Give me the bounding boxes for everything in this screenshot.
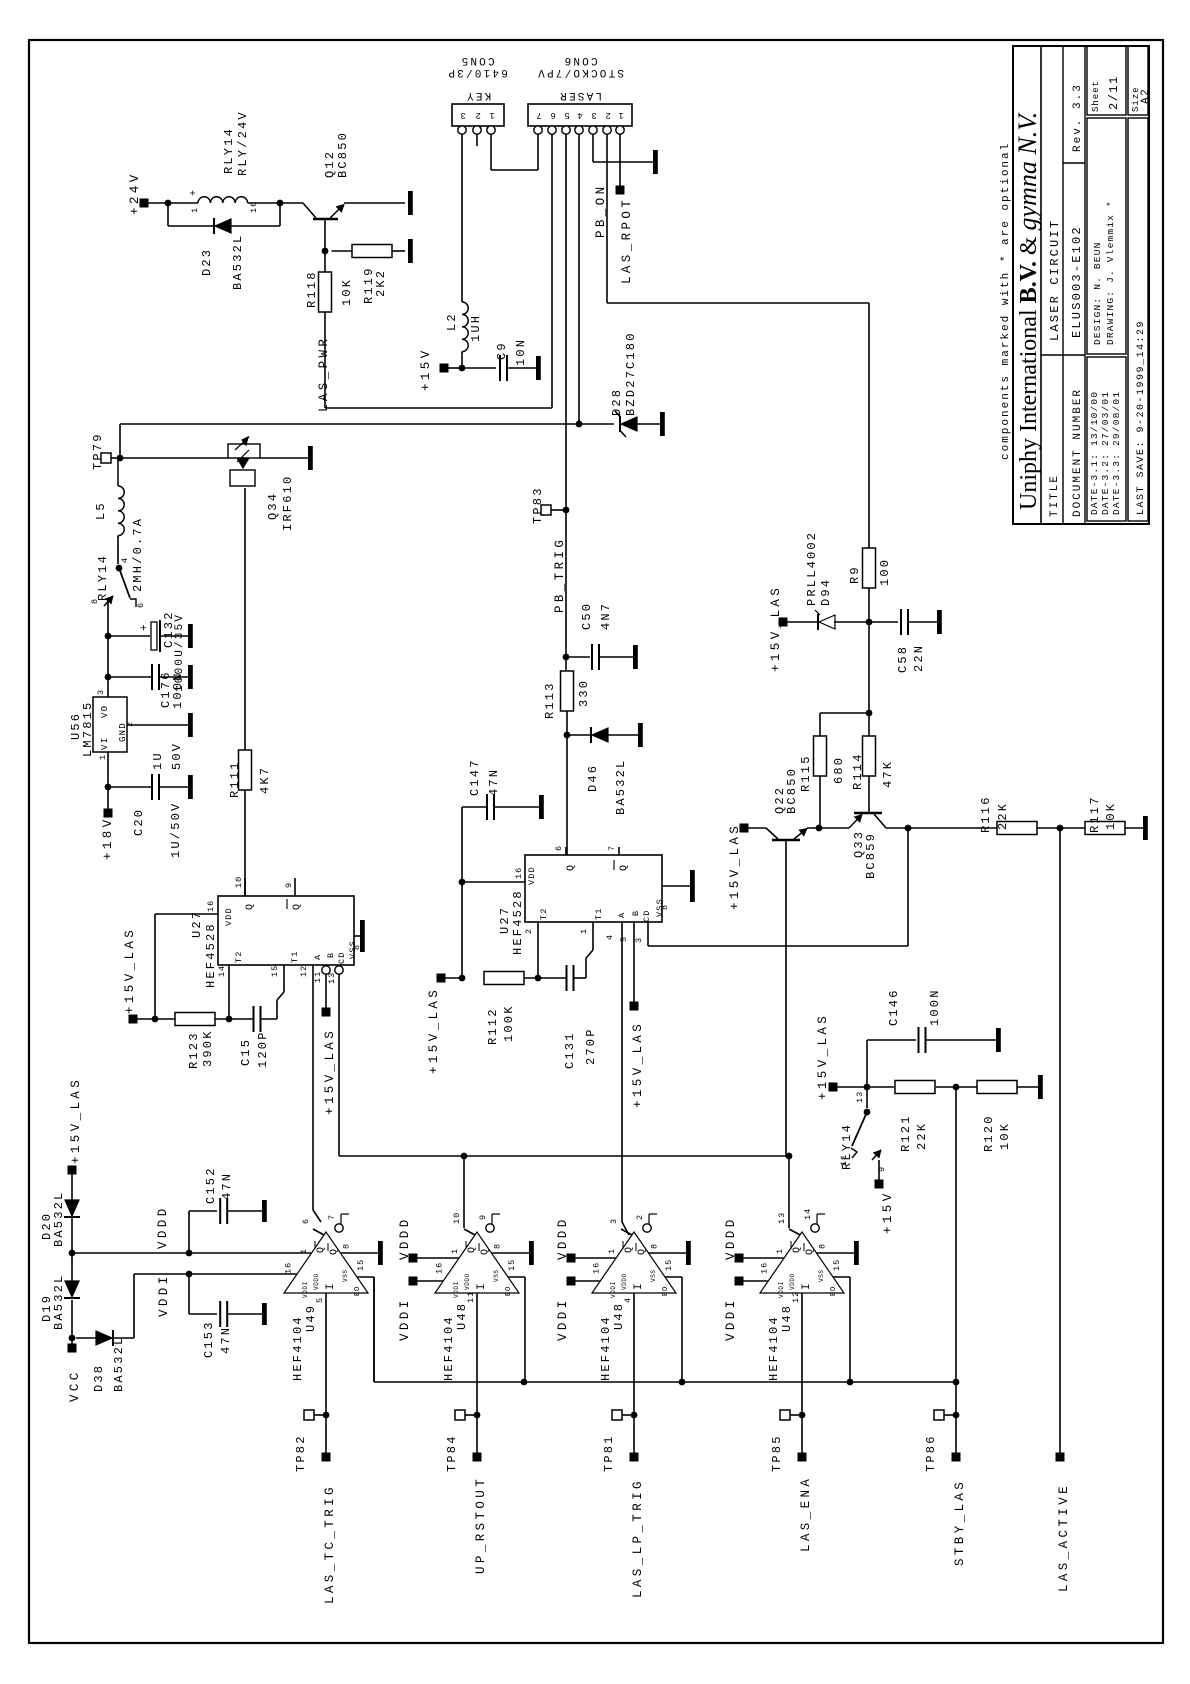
svg-text:U49: U49 — [304, 1304, 318, 1332]
svg-text:VDD: VDD — [224, 907, 234, 926]
buffer U48 HEF4104 (LAS_LP_TRIG) — [592, 1232, 676, 1293]
node junction — [953, 1084, 960, 1091]
svg-text:DATE-3.3: 29/08/01: DATE-3.3: 29/08/01 — [1111, 391, 1122, 515]
svg-text:47N: 47N — [487, 768, 501, 796]
capacitor C176 100N — [108, 676, 152, 678]
svg-text:PRLL4002: PRLL4002 — [805, 531, 819, 606]
capacitor C147 47N — [462, 806, 487, 808]
wire EO — [665, 1276, 682, 1278]
VDDI terminal — [409, 1277, 418, 1286]
svg-text:3: 3 — [96, 689, 106, 695]
svg-text:VSS: VSS — [493, 1269, 500, 1282]
ground — [937, 610, 942, 634]
wire — [344, 202, 405, 204]
svg-text:Q: Q — [316, 1246, 327, 1253]
svg-text:1: 1 — [299, 1248, 309, 1254]
svg-text:R9: R9 — [848, 565, 862, 584]
node junction — [165, 200, 172, 207]
svg-text:VDDO: VDDO — [313, 1273, 320, 1290]
svg-text:C152: C152 — [204, 1166, 218, 1204]
wire — [461, 352, 463, 368]
wire VDDI — [743, 1280, 768, 1282]
svg-text:BA532L: BA532L — [231, 234, 245, 290]
svg-text:TP86: TP86 — [924, 1434, 938, 1472]
svg-text:R115: R115 — [799, 754, 813, 792]
svg-text:9: 9 — [478, 1214, 488, 1220]
svg-text:VDDD: VDDD — [398, 1216, 412, 1260]
svg-text:1: 1 — [607, 1248, 617, 1254]
svg-text:HEF4104: HEF4104 — [291, 1315, 305, 1381]
svg-text:+: + — [189, 189, 200, 196]
svg-text:TP82: TP82 — [294, 1434, 308, 1472]
svg-text:VCC: VCC — [68, 1369, 82, 1402]
wire VSS to ground — [816, 1252, 854, 1254]
inductor L2 1UH — [462, 302, 468, 352]
svg-text:TP85: TP85 — [770, 1434, 784, 1472]
svg-text:VDDD: VDDD — [724, 1216, 738, 1260]
svg-text:16: 16 — [591, 1262, 601, 1274]
svg-text:13: 13 — [855, 1091, 865, 1103]
ground — [854, 1241, 859, 1265]
svg-text:IRF610: IRF610 — [281, 475, 295, 531]
capacitor C131 270P — [566, 965, 568, 991]
svg-text:VDDI: VDDI — [724, 1297, 738, 1341]
svg-text:HEF4104: HEF4104 — [767, 1315, 781, 1381]
wire input signal — [476, 1293, 478, 1453]
svg-text:15: 15 — [507, 1259, 517, 1271]
svg-text:6: 6 — [548, 110, 556, 120]
svg-text:TP81: TP81 — [602, 1434, 616, 1472]
svg-text:2: 2 — [473, 110, 481, 120]
wire EO — [833, 1276, 850, 1278]
svg-text:390K: 390K — [201, 1029, 215, 1067]
svg-text:I: I — [325, 1282, 337, 1290]
wire — [248, 202, 303, 204]
svg-text:C50: C50 — [580, 602, 594, 630]
wire A2 pin4 from gate U48 — [621, 922, 623, 1222]
inductor L5 2MH/0.7A — [118, 486, 124, 536]
svg-text:VDDD: VDDD — [156, 1205, 170, 1249]
svg-text:KEY: KEY — [465, 89, 491, 101]
svg-text:16: 16 — [514, 867, 524, 879]
svg-text:8: 8 — [341, 1243, 351, 1249]
wire input signal — [633, 1293, 635, 1453]
ground — [308, 446, 313, 470]
svg-text:DOCUMENT NUMBER: DOCUMENT NUMBER — [1072, 388, 1084, 517]
wire — [71, 1300, 73, 1344]
svg-text:Q: Q — [245, 903, 256, 910]
svg-text:A2: A2 — [1140, 88, 1152, 104]
wire CON6 pin3 to ground — [592, 134, 594, 162]
VCC supply terminal — [68, 1344, 77, 1353]
node junction — [564, 732, 571, 739]
wire CD2 pin3 — [647, 922, 649, 946]
svg-text:15: 15 — [356, 1259, 366, 1271]
wire — [868, 588, 870, 622]
wire — [834, 621, 869, 623]
VDDD rail wire — [72, 1252, 311, 1254]
svg-text:22K: 22K — [915, 1122, 929, 1150]
svg-text:2K2: 2K2 — [374, 269, 388, 297]
VDDI terminal — [567, 1277, 576, 1286]
svg-text:C153: C153 — [202, 1320, 216, 1358]
svg-text:CD: CD — [337, 951, 347, 964]
svg-text:A: A — [313, 954, 323, 960]
svg-text:VSS: VSS — [342, 1269, 349, 1282]
svg-text:6: 6 — [301, 1218, 311, 1224]
svg-text:EO: EO — [354, 1286, 362, 1296]
capacitor C58 22N — [869, 621, 898, 623]
svg-text:VDDI: VDDI — [778, 1281, 785, 1298]
svg-text:4N7: 4N7 — [599, 602, 613, 630]
svg-text:270P: 270P — [584, 1027, 598, 1065]
svg-text:Q34: Q34 — [266, 492, 280, 520]
transistor Q12 BC850 — [313, 218, 338, 221]
svg-text:6: 6 — [554, 845, 564, 851]
wire — [392, 250, 405, 252]
svg-text:1U: 1U — [151, 751, 165, 770]
test point TP83 — [541, 505, 551, 515]
svg-text:47N: 47N — [220, 1172, 234, 1200]
svg-text:+15V_LAS: +15V_LAS — [631, 1021, 645, 1108]
resistor R111 4K7 — [239, 750, 252, 790]
svg-text:VDDI: VDDI — [453, 1281, 460, 1298]
svg-text:1: 1 — [98, 754, 108, 760]
voltage regulator U56 LM7815 — [93, 697, 127, 752]
wire PB_TRIG — [565, 510, 567, 650]
node junction — [69, 1335, 76, 1342]
ground — [660, 412, 665, 436]
node junction — [461, 1153, 468, 1160]
svg-text:8: 8 — [817, 1243, 827, 1249]
svg-text:VDDO: VDDO — [621, 1273, 628, 1290]
svg-text:T2: T2 — [234, 950, 244, 963]
svg-text:22K: 22K — [996, 802, 1010, 830]
svg-text:VDDO: VDDO — [789, 1273, 796, 1290]
wire — [867, 1086, 894, 1088]
resistor R9 100 — [863, 548, 876, 588]
svg-text:VI: VI — [100, 737, 110, 750]
LAS_RPOT terminal — [616, 186, 625, 195]
svg-text:680: 680 — [832, 756, 846, 784]
svg-text:R117: R117 — [1088, 795, 1102, 833]
ground — [188, 775, 193, 799]
mosfet Q34 IRF610 — [228, 444, 260, 458]
svg-text:LASER CIRCUIT: LASER CIRCUIT — [1048, 219, 1062, 341]
node junction — [905, 825, 912, 832]
signal terminal STBY_LAS — [952, 1453, 961, 1462]
wire — [868, 622, 870, 713]
wire VSS to ground — [648, 1252, 686, 1254]
title block inner box dates — [1087, 357, 1126, 521]
svg-text:R112: R112 — [486, 1007, 500, 1045]
node junction — [1057, 825, 1064, 832]
svg-text:3: 3 — [458, 110, 466, 120]
node junction — [563, 654, 570, 661]
transistor Q33 BC859 — [854, 812, 882, 815]
svg-text:ELUS003-E102: ELUS003-E102 — [1070, 225, 1084, 338]
wire — [1037, 827, 1085, 829]
svg-text:RLY14: RLY14 — [96, 554, 110, 601]
svg-text:VDDD: VDDD — [556, 1216, 570, 1260]
+15V_LAS supply terminal — [630, 1002, 639, 1011]
svg-text:Q: Q — [805, 1248, 816, 1255]
title block inner box lastsave — [1128, 118, 1148, 521]
ground — [188, 624, 193, 648]
node junction — [816, 825, 823, 832]
ground — [536, 356, 541, 380]
test point TP84 — [455, 1410, 465, 1420]
resistor R115 680 — [814, 736, 827, 776]
svg-text:LAS_LP_TRIG: LAS_LP_TRIG — [631, 1478, 645, 1598]
node junction — [864, 1084, 871, 1091]
svg-text:12: 12 — [791, 1291, 801, 1303]
title block inner box size — [1128, 46, 1148, 115]
wire CD pin13 — [335, 966, 343, 974]
svg-text:RLY/24V: RLY/24V — [236, 110, 250, 176]
wire input signal — [801, 1293, 803, 1453]
wire — [119, 424, 121, 458]
transistor Q22 BC850 — [772, 839, 800, 842]
resistor R123 390K — [155, 1018, 175, 1020]
test point TP82 — [304, 1410, 314, 1420]
svg-text:13: 13 — [777, 1212, 787, 1224]
ground — [539, 795, 544, 819]
svg-text:HEF4104: HEF4104 — [442, 1315, 456, 1381]
svg-text:12: 12 — [299, 965, 309, 977]
wire VSS pin8 to ground — [354, 935, 360, 937]
+15V_LAS supply terminal — [322, 1008, 331, 1017]
capacitor C15 120P — [253, 1006, 255, 1032]
svg-text:R111: R111 — [228, 760, 242, 798]
diode D19 BA532L — [65, 1281, 79, 1297]
wire — [524, 977, 566, 979]
svg-text:BA532L: BA532L — [112, 1336, 126, 1392]
diode D38 BA532L — [76, 1337, 96, 1339]
svg-text:TP83: TP83 — [531, 486, 545, 524]
svg-text:4K7: 4K7 — [258, 766, 272, 794]
svg-text:R121: R121 — [899, 1114, 913, 1152]
+15V_LAS supply terminal — [129, 1015, 138, 1024]
wire gate4 Q / Q22 base shared net — [788, 1156, 790, 1228]
svg-text:VDDO: VDDO — [464, 1273, 471, 1290]
wire — [807, 827, 849, 829]
svg-text:50V: 50V — [170, 742, 184, 770]
svg-text:C131: C131 — [563, 1031, 577, 1069]
inverted output — [335, 1224, 343, 1232]
svg-text:BA532L: BA532L — [52, 1191, 66, 1247]
node junction — [786, 1153, 793, 1160]
node junction — [576, 421, 583, 428]
wire VSS to ground — [491, 1252, 529, 1254]
wire VSS to ground — [340, 1252, 378, 1254]
svg-text:Q: Q — [292, 903, 303, 910]
svg-text:15: 15 — [832, 1259, 842, 1271]
node junction — [116, 565, 123, 572]
svg-text:LASER: LASER — [558, 89, 602, 101]
svg-text:R123: R123 — [187, 1031, 201, 1069]
buffer U48 HEF4104 (LAS_ENA) — [760, 1232, 844, 1293]
diode D20 BA532L — [71, 1174, 73, 1200]
svg-text:1: 1 — [487, 110, 495, 120]
signal terminal LAS_ACTIVE — [1056, 1453, 1065, 1462]
diode D94 PRLL4002 — [787, 621, 818, 623]
+15V_LAS supply terminal — [829, 1083, 838, 1092]
svg-text:100N: 100N — [928, 988, 942, 1026]
svg-text:B: B — [326, 952, 336, 958]
svg-text:Uniphy International B.V. &: Uniphy International B.V. & gymna N.V. — [1013, 112, 1042, 510]
svg-text:TP84: TP84 — [445, 1434, 459, 1472]
node junction — [105, 784, 112, 791]
monostable U27 HEF4528 (second half) — [525, 855, 662, 922]
ground — [690, 870, 695, 902]
ground — [378, 1241, 383, 1265]
svg-text:3: 3 — [589, 110, 597, 120]
wire R115 to node — [819, 776, 821, 828]
wire Q output — [464, 1229, 475, 1235]
svg-text:6: 6 — [136, 602, 146, 608]
resistor R116 22K — [997, 822, 1037, 835]
svg-text:R116: R116 — [979, 795, 993, 833]
svg-text:VDD: VDD — [527, 866, 537, 885]
wire — [565, 650, 567, 670]
wire VDDI — [417, 1280, 443, 1282]
svg-text:5: 5 — [619, 936, 629, 942]
node junction — [535, 975, 542, 982]
svg-text:T1: T1 — [594, 907, 604, 920]
wire CON6 pin1 LAS_RPOT — [619, 134, 621, 186]
svg-text:TP79: TP79 — [91, 432, 105, 470]
wire Q34 gate down — [244, 488, 246, 751]
svg-text:R120: R120 — [982, 1114, 996, 1152]
svg-text:15: 15 — [664, 1259, 674, 1271]
wire T1-1 jog — [574, 977, 587, 979]
node junction — [152, 1016, 159, 1023]
svg-text:8: 8 — [492, 1243, 502, 1249]
wire B pin11 to +15V_LAS — [322, 966, 330, 974]
svg-text:I: I — [476, 1282, 488, 1290]
svg-text:LAS_RPOT: LAS_RPOT — [620, 197, 634, 284]
svg-text:7: 7 — [327, 1214, 337, 1220]
svg-text:8: 8 — [90, 598, 100, 604]
svg-text:DESIGN: N. BEUN: DESIGN: N. BEUN — [1092, 241, 1103, 345]
svg-text:+15V_LAS: +15V_LAS — [769, 585, 783, 672]
svg-text:11: 11 — [839, 1154, 849, 1166]
ground — [408, 191, 413, 215]
wire — [107, 752, 109, 809]
svg-text:120P: 120P — [256, 1030, 270, 1068]
ground — [188, 665, 193, 689]
svg-text:3: 3 — [634, 937, 644, 943]
svg-text:U48: U48 — [612, 1302, 626, 1330]
svg-text:+15V_LAS: +15V_LAS — [728, 823, 742, 910]
svg-text:1UH: 1UH — [469, 314, 483, 342]
wire CON5 pin1 to CON6 pin7 — [490, 134, 492, 170]
node junction — [186, 1271, 193, 1278]
wire T1 pin15 jog — [261, 1018, 278, 1020]
+18V supply terminal — [104, 809, 113, 818]
resistor R113 330 — [561, 671, 574, 711]
node junction — [866, 619, 873, 626]
node junction — [226, 1016, 233, 1023]
buffer U48 HEF4104 (UP_RSTOUT) — [435, 1232, 519, 1293]
test point TP86 — [934, 1410, 944, 1420]
svg-text:HEF4104: HEF4104 — [599, 1315, 613, 1381]
svg-text:11: 11 — [466, 1291, 476, 1303]
svg-text:+15V_LAS: +15V_LAS — [427, 987, 441, 1074]
svg-text:8: 8 — [660, 904, 670, 910]
signal terminal LAS_ENA — [798, 1453, 807, 1462]
wire +15V_LAS rail up — [461, 807, 463, 978]
relay switch RLY14 — [119, 568, 130, 598]
wire CON6 pin2 PB_ON — [606, 134, 608, 303]
wire — [886, 827, 997, 829]
node junction — [953, 1412, 960, 1419]
svg-text:16: 16 — [434, 1262, 444, 1274]
svg-text:10K: 10K — [998, 1122, 1012, 1150]
svg-text:330: 330 — [577, 679, 591, 707]
wire CON6 pin5 PB_TRIG — [565, 134, 567, 510]
wire CON5 pin2 stub — [476, 134, 478, 146]
test point TP81 — [612, 1410, 622, 1420]
wire — [566, 711, 568, 855]
svg-text:15: 15 — [270, 965, 280, 977]
svg-text:PB_TRIG: PB_TRIG — [553, 537, 567, 613]
svg-text:4: 4 — [605, 934, 615, 940]
svg-text:CD: CD — [642, 909, 652, 922]
+15V supply terminal — [440, 364, 449, 373]
capacitor C153 47N — [188, 1274, 190, 1314]
wire C146 branch — [866, 1040, 868, 1087]
node junction — [69, 1250, 76, 1257]
resistor R118 10K — [319, 272, 332, 312]
svg-text:BZD27C180: BZD27C180 — [624, 331, 638, 416]
node junction — [323, 1412, 330, 1419]
svg-text:Q: Q — [637, 1248, 648, 1255]
svg-text:R114: R114 — [851, 752, 865, 790]
+24V supply terminal — [140, 199, 149, 208]
svg-text:VDDI: VDDI — [302, 1281, 309, 1298]
svg-text:HEF4528: HEF4528 — [204, 922, 218, 988]
resistor R117 10K — [1085, 822, 1125, 835]
ground — [686, 1241, 691, 1265]
svg-text:D23: D23 — [200, 248, 214, 276]
svg-text:C15: C15 — [239, 1038, 253, 1066]
svg-text:T1: T1 — [290, 950, 300, 963]
svg-text:Rev. 3.3: Rev. 3.3 — [1072, 83, 1084, 152]
svg-text:+15V_LAS: +15V_LAS — [123, 927, 137, 1014]
node junction — [953, 1379, 960, 1386]
svg-text:LAS_ENA: LAS_ENA — [799, 1476, 813, 1552]
node junction — [679, 1379, 686, 1386]
node junction — [105, 633, 112, 640]
svg-text:HEF4528: HEF4528 — [511, 889, 525, 955]
svg-text:VSS: VSS — [818, 1269, 825, 1282]
svg-text:10: 10 — [234, 876, 244, 888]
svg-text:TITLE: TITLE — [1049, 474, 1061, 517]
svg-text:VDDI: VDDI — [398, 1297, 412, 1341]
svg-text:1: 1 — [450, 1248, 460, 1254]
resistor R120 10K — [977, 1081, 1017, 1094]
inverted output — [486, 1224, 494, 1232]
node junction — [459, 879, 466, 886]
svg-text:UP_RSTOUT: UP_RSTOUT — [474, 1476, 488, 1574]
svg-text:Q: Q — [792, 1246, 803, 1253]
svg-text:U48: U48 — [780, 1304, 794, 1332]
svg-text:1: 1 — [616, 110, 624, 120]
polarized capacitor C132 1000U/35V — [108, 635, 150, 637]
svg-text:LAS_TC_TRIG: LAS_TC_TRIG — [323, 1484, 337, 1604]
